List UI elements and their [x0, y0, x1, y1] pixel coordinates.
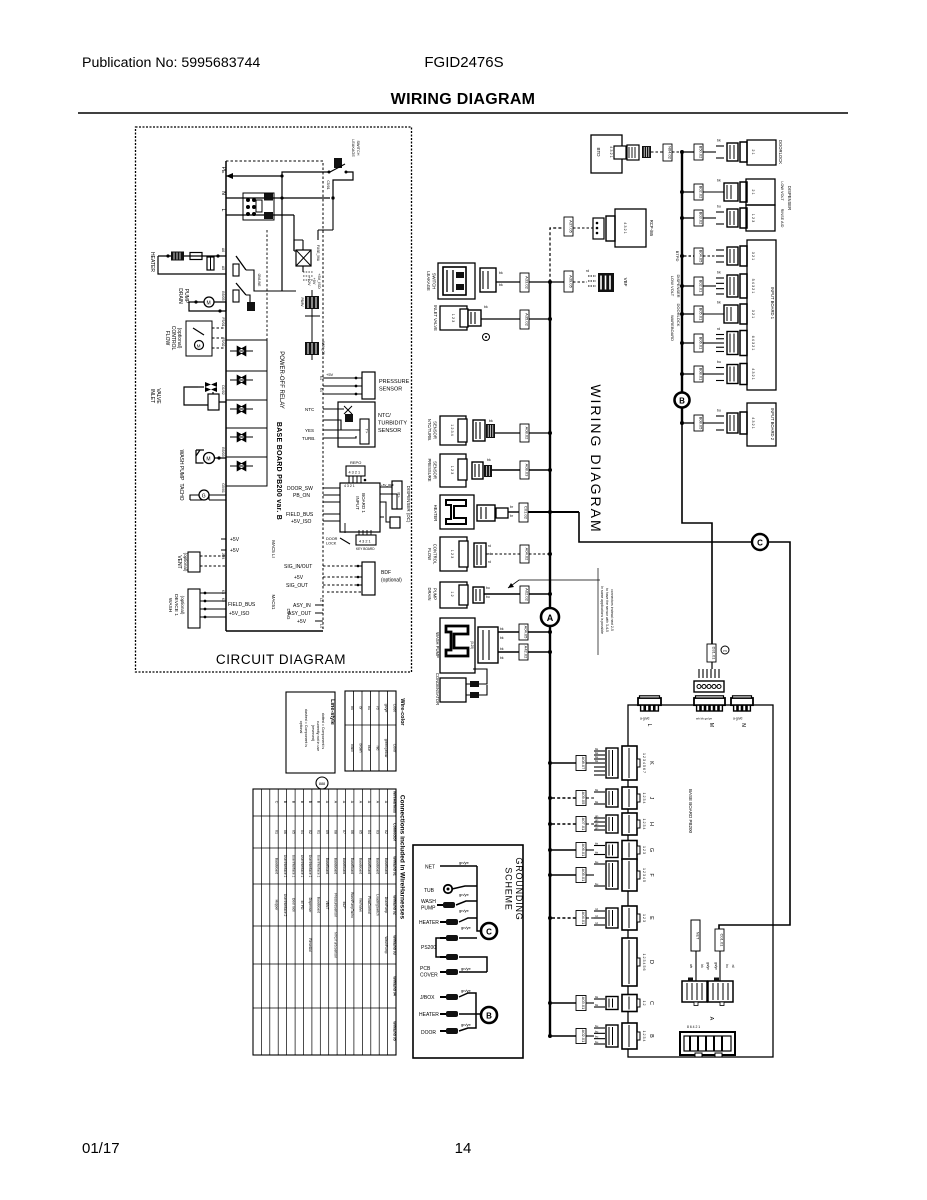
svg-text:J: J — [648, 797, 654, 800]
svg-text:WireEnd 05: WireEnd 05 — [392, 1021, 396, 1041]
transformer — [300, 290, 320, 316]
svg-text:09: 09 — [325, 830, 329, 834]
svg-text:brown: brown — [359, 744, 363, 753]
svg-text:bk: bk — [500, 627, 504, 631]
svg-text:M: M — [206, 457, 210, 463]
connector row doorlock — [680, 139, 755, 163]
gnd J/BOX — [420, 988, 476, 1015]
svg-text:PCB: PCB — [420, 966, 431, 972]
svg-text:COVER: COVER — [420, 973, 438, 979]
svg-text:RCP-/B5: RCP-/B5 — [649, 220, 654, 237]
N rail — [220, 191, 330, 198]
connector row dispenser low volt — [680, 179, 755, 203]
svg-text:G: G — [648, 848, 654, 852]
svg-text:ASY_OUT: ASY_OUT — [288, 611, 311, 617]
svg-text:WireHarness: WireHarness — [392, 791, 396, 813]
header rule — [78, 112, 848, 114]
svg-text:4 3 2 1: 4 3 2 1 — [344, 484, 355, 488]
svg-text:FGID2476S: FGID2476S — [424, 54, 503, 71]
svg-text:Door lock: Door lock — [291, 898, 295, 912]
power supply / rectifier — [294, 230, 320, 272]
svg-text:01: 01 — [317, 830, 321, 834]
input board 1 (circuit) — [286, 483, 380, 532]
svg-text:bk: bk — [500, 636, 504, 640]
svg-text:rd: rd — [595, 907, 598, 911]
svg-text:A04.05: A04.05 — [524, 626, 529, 639]
header model number — [424, 54, 503, 71]
svg-text:M: M — [708, 723, 714, 727]
svg-text:INPUT: INPUT — [355, 496, 360, 510]
svg-text:1 2 3: 1 2 3 — [451, 314, 455, 322]
svg-text:1 2 3: 1 2 3 — [642, 914, 646, 922]
header publication number — [82, 55, 260, 71]
svg-text:02: 02 — [384, 830, 388, 834]
svg-text:rd: rd — [586, 269, 589, 273]
svg-text:black: black — [350, 744, 354, 752]
base board PB200 outline — [226, 161, 323, 631]
svg-text:06: 06 — [350, 830, 354, 834]
svg-text:bu: bu — [717, 360, 721, 364]
svg-text:gn/ye: gn/ye — [706, 962, 710, 970]
tacho (circuit) — [178, 483, 226, 500]
svg-text:bk: bk — [595, 851, 599, 855]
left main bus wire — [549, 282, 551, 1036]
svg-text:bk: bk — [717, 179, 721, 183]
svg-text:DISPENSER: DISPENSER — [787, 186, 792, 210]
svg-text:optional: optional — [299, 721, 303, 734]
svg-text:G: G — [202, 494, 206, 500]
svg-text:4 3 2 1: 4 3 2 1 — [623, 222, 627, 234]
svg-text:BaseBoard: BaseBoard — [384, 858, 388, 874]
circuit diagram outer border — [136, 127, 412, 672]
svg-text:Hopper: Hopper — [275, 900, 279, 912]
svg-text:C: C — [486, 928, 492, 937]
svg-text:a-gn/d: a-gn/d — [640, 717, 650, 721]
svg-text:FlowControl: FlowControl — [367, 896, 371, 914]
svg-text:DOORLOCK: DOORLOCK — [778, 140, 783, 164]
svg-text:bk: bk — [700, 964, 704, 968]
svg-text:(optional): (optional) — [381, 578, 402, 584]
wire node B to board — [682, 423, 712, 644]
svg-text:bu: bu — [595, 1035, 599, 1039]
svg-text:01/17: 01/17 — [82, 1140, 120, 1157]
connector row J — [548, 787, 654, 809]
svg-text:bu: bu — [725, 964, 729, 968]
svg-text:bk: bk — [500, 656, 504, 660]
connections table — [253, 789, 406, 1055]
connector row H — [548, 813, 654, 835]
svg-text:6 4 3 2 1: 6 4 3 2 1 — [751, 336, 755, 351]
svg-text:MAC51: MAC51 — [271, 594, 276, 610]
svg-text:B08.05: B08.05 — [699, 417, 704, 430]
svg-text:red: red — [376, 746, 380, 751]
svg-text:(reserved): (reserved) — [311, 725, 315, 741]
svg-text:DrainPump: DrainPump — [384, 897, 388, 914]
svg-text:A39.05: A39.05 — [569, 275, 574, 288]
heater (circuit) — [149, 248, 226, 274]
svg-text:InletValve: InletValve — [359, 898, 363, 912]
svg-text:HEATER: HEATER — [149, 252, 155, 272]
svg-text:M: M — [197, 344, 201, 349]
svg-text:PRESSURE: PRESSURE — [427, 458, 432, 481]
svg-text:DOOR: DOOR — [326, 537, 338, 541]
svg-text:(3.25): (3.25) — [470, 641, 474, 649]
svg-text:+5V: +5V — [230, 548, 240, 554]
wires NET/C01 down — [689, 951, 735, 981]
svg-text:BTD: BTD — [596, 148, 601, 158]
connector row BTPD — [680, 246, 755, 266]
svg-text:TUB: TUB — [424, 888, 435, 894]
svg-text:INPUT BOARD 1: INPUT BOARD 1 — [770, 287, 775, 320]
svg-text:A08.02: A08.02 — [525, 427, 530, 440]
condensator component — [435, 669, 487, 705]
svg-text:WASH: WASH — [167, 598, 173, 613]
wire filter down — [282, 176, 294, 291]
svg-text:1 2 3 4 5 6 7: 1 2 3 4 5 6 7 — [642, 753, 646, 773]
svg-text:UserInterface 1: UserInterface 1 — [300, 855, 304, 878]
svg-text:CONDENSATOR: CONDENSATOR — [435, 673, 440, 705]
svg-text:a-gn/d: a-gn/d — [733, 717, 743, 721]
connector N — [731, 696, 753, 727]
svg-text:WIRING DIAGRAM: WIRING DIAGRAM — [391, 91, 536, 108]
wash pump component — [435, 618, 552, 673]
+12V +5V_ISO labels — [303, 272, 321, 289]
svg-text:Line-style: Line-style — [329, 699, 335, 725]
svg-text:bu: bu — [367, 706, 371, 710]
connector pair mid — [682, 978, 733, 1006]
connector M — [694, 696, 725, 727]
svg-text:PressureSensor: PressureSensor — [333, 893, 337, 918]
svg-text:rd: rd — [488, 544, 491, 548]
base board label — [275, 422, 282, 520]
connector row rinse aid — [680, 205, 755, 229]
svg-text:bu: bu — [486, 595, 490, 599]
svg-text:H: H — [648, 822, 654, 826]
svg-text:VALVE: VALVE — [155, 388, 161, 404]
svg-text:gn/ye: gn/ye — [461, 966, 472, 971]
svg-text:BaseBoard: BaseBoard — [275, 858, 279, 874]
svg-text:UserInterface 1: UserInterface 1 — [291, 855, 295, 878]
svg-text:POWER-OFF RELAY: POWER-OFF RELAY — [278, 351, 284, 409]
svg-text:E: E — [648, 916, 654, 920]
svg-text:1 2 3 4 5: 1 2 3 4 5 — [642, 868, 646, 882]
svg-text:BaseBoard: BaseBoard — [325, 858, 329, 874]
svg-text:BaseBoard: BaseBoard — [350, 858, 354, 874]
svg-text:bk: bk — [499, 283, 503, 287]
svg-text:(optional): (optional) — [180, 596, 185, 615]
right bus wire — [681, 152, 683, 423]
svg-text:G5/01: G5/01 — [221, 483, 225, 493]
svg-text:SWITCH: SWITCH — [432, 273, 437, 290]
low volt dispenser rotated label — [670, 274, 681, 297]
BDF optional (circuit) — [284, 562, 402, 595]
svg-text:C: C — [757, 539, 763, 548]
footer date — [82, 1140, 120, 1157]
connector D (no wire) — [622, 938, 654, 986]
BTPD rotated label — [675, 251, 680, 262]
svg-text:4 3 2 1: 4 3 2 1 — [751, 368, 755, 380]
svg-text:HEATER: HEATER — [433, 505, 438, 522]
svg-text:SENSOR: SENSOR — [433, 461, 438, 479]
svg-text:bk: bk — [595, 800, 599, 804]
wash device 1 (circuit) — [167, 589, 256, 628]
circled junction count — [316, 777, 328, 789]
connector block above M — [694, 681, 724, 692]
RCP/B5 component — [564, 209, 654, 247]
svg-text:UserInterface 1: UserInterface 1 — [317, 855, 321, 878]
input board 1 box — [747, 240, 776, 390]
svg-text:BOARD 1: BOARD 1 — [361, 493, 366, 513]
svg-text:FIELD_BUS: FIELD_BUS — [286, 512, 314, 518]
svg-text:PS200: PS200 — [421, 945, 436, 951]
svg-text:+5V_ISO: +5V_ISO — [317, 273, 321, 289]
svg-text:WASH PUMP: WASH PUMP — [178, 450, 184, 481]
svg-text:B06.01: B06.01 — [699, 337, 704, 350]
svg-text:GROUNDING: GROUNDING — [514, 857, 524, 920]
svg-text:1 2 3: 1 2 3 — [642, 846, 646, 854]
svg-text:SENSOR: SENSOR — [378, 428, 401, 434]
svg-text:N: N — [220, 191, 226, 195]
svg-text:NTC/Turb.Sensor: NTC/Turb.Sensor — [333, 932, 337, 959]
svg-text:BTPD: BTPD — [675, 251, 680, 262]
svg-text:TURBIDITY: TURBIDITY — [378, 421, 407, 427]
svg-text:1 2: 1 2 — [450, 591, 454, 596]
svg-text:INLET VALVE: INLET VALVE — [433, 305, 438, 331]
svg-text:dotted = Component is: dotted = Component is — [321, 713, 325, 749]
svg-text:1 2 3: 1 2 3 — [751, 214, 755, 222]
svg-text:WASH PUMP: WASH PUMP — [435, 632, 440, 658]
svg-text:07: 07 — [342, 830, 346, 834]
svg-text:B04.05: B04.05 — [699, 250, 704, 263]
svg-text:bk: bk — [484, 305, 488, 309]
svg-text:B50.02: B50.02 — [699, 146, 704, 159]
svg-text:F5/01: F5/01 — [221, 318, 225, 327]
svg-text:NTC/: NTC/ — [378, 413, 391, 419]
NTC/turbidity sensor component — [427, 416, 552, 445]
svg-text:VBNT: VBNT — [325, 901, 329, 910]
svg-text:A04.02: A04.02 — [525, 548, 530, 561]
svg-text:CONTROL: CONTROL — [170, 326, 176, 351]
svg-text:B02.01: B02.01 — [699, 280, 704, 293]
svg-text:A06.01: A06.01 — [581, 844, 586, 857]
svg-text:A42.02: A42.02 — [524, 646, 529, 659]
svg-text:FUSE_5VA: FUSE_5VA — [316, 245, 320, 262]
svg-text:Dispenser: Dispenser — [308, 898, 312, 914]
svg-text:B5/05: B5/05 — [221, 291, 225, 300]
svg-text:F5/02: F5/02 — [221, 338, 225, 347]
svg-text:bk: bk — [717, 301, 721, 305]
page title WIRING DIAGRAM — [391, 91, 536, 108]
svg-text:TACHO: TACHO — [178, 483, 184, 500]
gnd NET — [425, 860, 477, 871]
gnd HEATER 1 — [419, 918, 477, 930]
svg-text:bu: bu — [717, 205, 721, 209]
vent (circuit) — [176, 552, 226, 572]
svg-text:4 3 2 1: 4 3 2 1 — [751, 417, 755, 429]
svg-text:A04.01: A04.01 — [581, 912, 586, 925]
relay contacts — [233, 256, 282, 311]
NET label box — [691, 920, 700, 951]
doorlock box — [747, 140, 783, 165]
svg-text:VBF: VBF — [623, 278, 628, 287]
svg-text:B03.02: B03.02 — [699, 212, 704, 225]
svg-text:BASE BOARD PB200 var. B: BASE BOARD PB200 var. B — [275, 422, 282, 520]
PE rail — [220, 167, 282, 179]
svg-text:02: 02 — [308, 830, 312, 834]
svg-text:B02.02: B02.02 — [699, 186, 704, 199]
svg-text:wh bk gn/ye: wh bk gn/ye — [696, 717, 712, 721]
svg-text:A03.01: A03.01 — [581, 997, 586, 1010]
connector row G — [548, 841, 654, 860]
svg-text:BDF: BDF — [381, 570, 391, 576]
pressure sensor (circuit) — [319, 372, 410, 399]
svg-text:ASY_IN: ASY_IN — [293, 603, 311, 609]
svg-text:DRAIN: DRAIN — [427, 587, 432, 600]
svg-text:FLOW: FLOW — [427, 548, 432, 560]
svg-text:08: 08 — [333, 830, 337, 834]
svg-text:VENT: VENT — [176, 555, 182, 568]
svg-text:K3: K3 — [221, 590, 225, 594]
svg-text:04: 04 — [300, 830, 304, 834]
svg-text:INLET: INLET — [149, 389, 155, 403]
svg-text:2 1: 2 1 — [751, 189, 755, 194]
svg-text:4 3 2 1: 4 3 2 1 — [349, 471, 361, 475]
svg-text:A: A — [708, 1017, 714, 1021]
svg-text:gn/ye: gn/ye — [461, 925, 472, 930]
svg-text:RinseAid: RinseAid — [308, 938, 312, 951]
svg-text:Publication No: 5995683744: Publication No: 5995683744 — [82, 55, 260, 71]
svg-text:BaseBoard: BaseBoard — [333, 858, 337, 874]
dispenser low volt box — [746, 179, 792, 210]
svg-text:NTC/TURB.: NTC/TURB. — [427, 419, 432, 441]
svg-text:WAREBOARD: WAREBOARD — [670, 315, 675, 341]
svg-text:SENSOR: SENSOR — [379, 387, 402, 393]
dashed wire bus top to RCP — [550, 228, 564, 282]
svg-text:currently not in use: currently not in use — [316, 721, 320, 751]
svg-text:N64.02: N64.02 — [668, 146, 673, 160]
base board box (wiring) — [628, 705, 773, 1057]
rail junction dots — [280, 174, 334, 199]
svg-text:04: 04 — [367, 830, 371, 834]
svg-text:2 1: 2 1 — [751, 149, 755, 154]
svg-text:A: A — [547, 613, 554, 623]
svg-text:LoadingSwitch: LoadingSwitch — [375, 894, 379, 916]
svg-text:05: 05 — [359, 830, 363, 834]
svg-text:DOOR: DOOR — [421, 1030, 436, 1036]
svg-text:connectors instead next 2-5: connectors instead next 2-5 — [610, 589, 614, 631]
svg-text:PB_ON: PB_ON — [293, 493, 310, 499]
svg-text:PUMP: PUMP — [421, 906, 436, 912]
svg-text:gn/ye: gn/ye — [459, 892, 470, 897]
svg-text:NET: NET — [425, 865, 435, 871]
svg-text:ON/LINE: ON/LINE — [257, 274, 261, 287]
footer page number — [455, 1140, 472, 1157]
svg-text:SENSOR: SENSOR — [433, 421, 438, 439]
svg-text:05: 05 — [291, 830, 295, 834]
node B circle — [675, 393, 690, 408]
wire leakage to rails — [282, 172, 353, 200]
svg-text:+5V_REF: +5V_REF — [381, 483, 394, 487]
power-off relay label — [278, 351, 284, 409]
svg-text:bk: bk — [350, 706, 354, 710]
svg-text:A05.01: A05.01 — [581, 869, 586, 882]
svg-text:A07.01: A07.01 — [581, 818, 586, 831]
gnd PCB COVER — [420, 966, 487, 979]
svg-text:A02.02: A02.02 — [525, 588, 530, 601]
triac ladder — [226, 340, 267, 486]
connector row low volt dispenser — [680, 271, 755, 299]
svg-text:4 3 2 1: 4 3 2 1 — [609, 146, 613, 158]
circuit diagram title — [216, 652, 346, 667]
svg-text:WireEnd 03: WireEnd 03 — [392, 935, 396, 955]
relay coil — [305, 316, 325, 360]
gnd TUB — [424, 885, 477, 897]
svg-text:WASH: WASH — [421, 899, 436, 905]
BTD component — [591, 135, 651, 173]
svg-text:BCP: BCP — [342, 902, 346, 910]
connector row K — [548, 746, 654, 780]
wash pump (circuit) — [178, 447, 226, 481]
svg-text:to have the sensor with 3-4-5: to have the sensor with 3-4-5 — [605, 588, 609, 632]
svg-text:TURB.: TURB. — [302, 436, 316, 441]
svg-text:Code: Code — [393, 704, 397, 713]
svg-text:BaseBoard: BaseBoard — [375, 858, 379, 874]
svg-text:bk: bk — [487, 458, 491, 462]
wire BTD to bus (dashed) — [651, 144, 682, 161]
doorlock/wareboard rotated labels — [670, 304, 681, 342]
svg-text:Connections included in WireHa: Connections included in WireHarnesses — [399, 795, 406, 920]
svg-text:gn/ye: gn/ye — [461, 988, 472, 993]
svg-text:D1/02: D1/02 — [221, 385, 225, 394]
svg-text:HEATER: HEATER — [419, 920, 439, 926]
connector row input board 2 — [680, 409, 755, 435]
svg-text:+5V: +5V — [312, 278, 316, 285]
svg-text:Connector: Connector — [392, 823, 396, 842]
label D31 — [707, 644, 729, 662]
svg-text:REPO: REPO — [350, 460, 361, 465]
svg-text:bu: bu — [595, 860, 599, 864]
svg-text:LOCK: LOCK — [326, 542, 337, 546]
connector row input board last — [680, 360, 755, 385]
connector row doorlock lv — [680, 301, 755, 325]
svg-text:B08.01: B08.01 — [699, 368, 704, 381]
wires psu area — [267, 198, 333, 340]
inlet valve component — [433, 305, 552, 341]
svg-text:rd: rd — [376, 706, 380, 709]
line-style legend box — [286, 692, 335, 773]
gnd node B circle — [481, 1007, 497, 1023]
svg-text:B05.01: B05.01 — [699, 308, 704, 321]
svg-text:14: 14 — [455, 1140, 472, 1157]
svg-text:bk: bk — [595, 788, 599, 792]
connector row wareboard — [680, 327, 755, 356]
svg-text:gn/ye: gn/ye — [714, 962, 718, 970]
connector L — [638, 696, 661, 727]
svg-text:3 2 1: 3 2 1 — [751, 310, 755, 318]
svg-text:gn/ye: gn/ye — [461, 1022, 472, 1027]
svg-text:FIELD_BUS: FIELD_BUS — [228, 602, 256, 608]
svg-text:bu: bu — [595, 1029, 599, 1033]
EMI filter — [243, 193, 274, 220]
svg-text:WireEnd 01: WireEnd 01 — [392, 856, 396, 876]
svg-text:L: L — [646, 724, 652, 727]
svg-text:gn/ye: gn/ye — [459, 908, 470, 913]
svg-text:A33.02: A33.02 — [525, 276, 530, 289]
svg-text:(optional): (optional) — [183, 553, 188, 572]
connector row B — [548, 1023, 654, 1049]
svg-text:BaseBoard: BaseBoard — [367, 858, 371, 874]
svg-text:A6: A6 — [221, 248, 225, 252]
